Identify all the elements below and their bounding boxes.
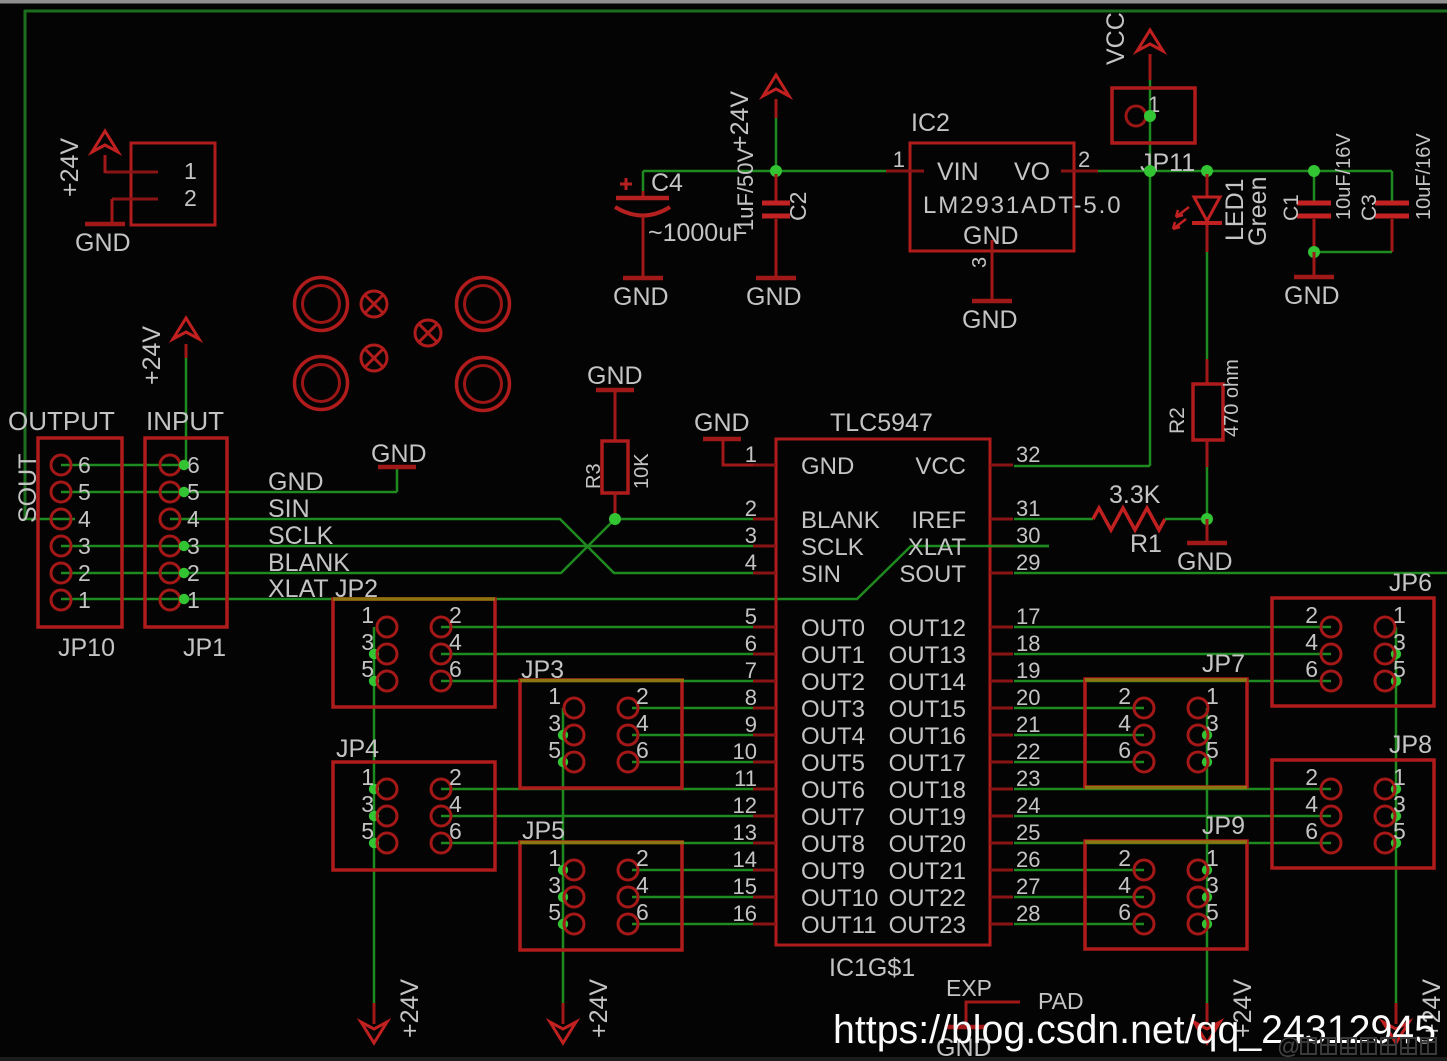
- wire OUT10: [632, 896, 753, 899]
- svg-text:9: 9: [745, 712, 757, 737]
- resistor R1 3.3K: [1093, 508, 1165, 530]
- supply VCC arrow: [1137, 30, 1163, 51]
- wire SIN net: [170, 519, 753, 573]
- svg-text:5: 5: [548, 899, 561, 925]
- pin 31 IREF: [990, 518, 1013, 521]
- pin 23 OUT18: [990, 788, 1013, 791]
- svg-text:10K: 10K: [631, 453, 653, 489]
- wire X1 pin1 to +24V: [105, 171, 158, 174]
- node junction LED branch: [1201, 165, 1213, 177]
- svg-text:22: 22: [1016, 739, 1040, 764]
- wire OUT8 over JP5 top edge: [520, 841, 684, 845]
- svg-text:1: 1: [361, 764, 374, 790]
- pin 3 SCLK: [753, 545, 776, 548]
- pin 20 OUT15: [990, 707, 1013, 710]
- svg-text:10uF/16V: 10uF/16V: [1333, 133, 1355, 220]
- svg-text:JP7: JP7: [1202, 650, 1245, 678]
- pin 22 OUT17: [990, 761, 1013, 764]
- svg-text:10: 10: [733, 739, 757, 764]
- wire +24V riser to arrow: [185, 358, 188, 465]
- svg-text:12: 12: [733, 793, 757, 818]
- node junction VCC rail/vertical: [1144, 165, 1156, 177]
- pin 24 OUT19: [990, 815, 1013, 818]
- svg-text:GND: GND: [268, 468, 324, 496]
- svg-text:SIN: SIN: [268, 495, 310, 523]
- connector JP3: [520, 680, 682, 788]
- svg-text:28: 28: [1016, 901, 1040, 926]
- mounting hole H2: [457, 278, 510, 331]
- mounting hole H4: [457, 358, 510, 411]
- connector JP1 INPUT: [145, 438, 227, 627]
- resistor R3 10K: [602, 441, 628, 493]
- svg-text:+24V: +24V: [585, 979, 613, 1038]
- wire R3 to BLANK: [614, 493, 617, 519]
- svg-text:23: 23: [1016, 766, 1040, 791]
- fiducial X1: [361, 291, 387, 317]
- svg-text:16: 16: [733, 901, 757, 926]
- svg-text:XLAT: XLAT: [268, 575, 329, 603]
- svg-text:6: 6: [636, 737, 649, 763]
- pin 12 OUT7: [753, 815, 776, 818]
- pin 5 OUT0: [753, 626, 776, 629]
- pin 10 OUT5: [753, 761, 776, 764]
- resistor R2 470 ohm: [1193, 384, 1223, 440]
- wire +24V bus JP7/JP9: [1206, 708, 1209, 1003]
- svg-text:5: 5: [745, 604, 757, 629]
- wire OUT23: [1014, 923, 1144, 926]
- wire VCC corner to C3: [1391, 171, 1394, 201]
- svg-text:4: 4: [636, 872, 649, 898]
- wire GND net row: [61, 491, 397, 494]
- svg-text:6: 6: [636, 899, 649, 925]
- pin 18 OUT13: [990, 653, 1013, 656]
- pin 4 SIN: [753, 572, 776, 575]
- svg-text:1: 1: [1393, 602, 1406, 628]
- svg-text:EXP: EXP: [946, 975, 992, 1001]
- svg-text:4: 4: [636, 710, 649, 736]
- wire SCLK net: [61, 545, 753, 548]
- svg-text:OUT18: OUT18: [889, 777, 966, 804]
- pin 15 OUT10: [753, 896, 776, 899]
- wire R1 to junction: [1165, 518, 1207, 521]
- wire R2 to R1 junction: [1206, 440, 1209, 467]
- wire OUT18 over JP7 bottom edge: [1085, 786, 1247, 790]
- pin 1 GND: [753, 464, 776, 467]
- svg-text:OUT7: OUT7: [801, 804, 865, 831]
- wire XLAT net: [61, 546, 1049, 599]
- node junction JP11 pin: [1144, 110, 1156, 122]
- svg-text:3: 3: [969, 257, 991, 268]
- svg-text:Green: Green: [1244, 177, 1272, 246]
- wire OUT4: [632, 734, 753, 737]
- wire +24V bus JP6/JP8: [1395, 627, 1398, 1003]
- svg-text:2: 2: [636, 845, 649, 871]
- wire OUT7: [441, 815, 753, 818]
- wire +24V rail to C4 and IC2 VIN: [643, 170, 886, 173]
- svg-text:R1: R1: [1130, 530, 1162, 558]
- connector JP5: [520, 842, 682, 950]
- wire +24V bus JP2/JP4: [373, 627, 376, 1003]
- svg-text:19: 19: [1016, 658, 1040, 683]
- connector JP6: [1272, 598, 1434, 706]
- svg-text:15: 15: [733, 874, 757, 899]
- pin 29 SOUT: [990, 572, 1013, 575]
- svg-text:3: 3: [548, 872, 561, 898]
- svg-text:SCLK: SCLK: [268, 522, 334, 550]
- svg-text:OUT3: OUT3: [801, 696, 865, 723]
- svg-text:5: 5: [1206, 899, 1219, 925]
- connector JP11: [1112, 88, 1195, 143]
- svg-text:SOUT: SOUT: [899, 561, 966, 588]
- wire XLAT over pin30 stub: [987, 545, 1049, 548]
- svg-text:2: 2: [449, 602, 462, 628]
- svg-text:OUT15: OUT15: [889, 696, 966, 723]
- svg-text:OUT19: OUT19: [889, 804, 966, 831]
- svg-text:1: 1: [1206, 683, 1219, 709]
- capacitor C2: [775, 174, 778, 201]
- svg-text:2: 2: [636, 683, 649, 709]
- svg-text:1: 1: [893, 147, 905, 172]
- wire OUT15: [1014, 707, 1144, 710]
- ground GND (X1): [85, 222, 125, 227]
- capacitor C3: [1375, 201, 1409, 206]
- svg-text:OUT22: OUT22: [889, 885, 966, 912]
- svg-text:SOUT: SOUT: [14, 454, 42, 523]
- svg-text:SIN: SIN: [801, 561, 841, 588]
- wire BLANK net: [61, 519, 753, 573]
- svg-text:1: 1: [548, 683, 561, 709]
- wire OUT12: [1014, 626, 1331, 629]
- connector JP9: [1085, 841, 1247, 949]
- svg-text:6: 6: [1118, 737, 1131, 763]
- svg-text:+24V: +24V: [396, 979, 424, 1038]
- svg-text:11: 11: [734, 766, 757, 791]
- svg-text:@: @: [1277, 1033, 1300, 1059]
- svg-text:LM2931ADT-5.0: LM2931ADT-5.0: [923, 192, 1122, 219]
- svg-text:GND: GND: [694, 409, 750, 437]
- wire OUT22: [1014, 896, 1144, 899]
- svg-text:2: 2: [1118, 845, 1131, 871]
- svg-text:OUT5: OUT5: [801, 750, 865, 777]
- svg-text:3: 3: [548, 710, 561, 736]
- wire VCC vertical: [1149, 80, 1152, 466]
- svg-text:JP9: JP9: [1202, 812, 1245, 840]
- svg-text:5: 5: [548, 737, 561, 763]
- svg-text:32: 32: [1016, 442, 1040, 467]
- svg-text:OUTPUT: OUTPUT: [8, 406, 115, 436]
- wire junction to GND: [1206, 519, 1209, 541]
- pin 8 OUT3: [753, 707, 776, 710]
- wire OUT16: [1014, 734, 1144, 737]
- capacitor C4: [642, 191, 645, 198]
- svg-text:20: 20: [1016, 685, 1040, 710]
- svg-text:2: 2: [449, 764, 462, 790]
- svg-text:2: 2: [745, 496, 757, 521]
- connector JP8: [1272, 760, 1434, 868]
- svg-text:+24V: +24V: [56, 138, 84, 197]
- svg-text:C4: C4: [651, 169, 683, 197]
- wire OUT5: [632, 761, 753, 764]
- svg-text:6: 6: [78, 452, 91, 478]
- svg-text:2: 2: [1118, 683, 1131, 709]
- svg-text:C1: C1: [1280, 194, 1303, 221]
- svg-text:C2: C2: [785, 192, 811, 221]
- svg-text:31: 31: [1016, 496, 1040, 521]
- svg-text:OUT16: OUT16: [889, 723, 966, 750]
- wire OUT20 over JP9 top edge: [1085, 840, 1247, 844]
- svg-text:3: 3: [1393, 629, 1406, 655]
- pin 28 OUT23: [990, 923, 1013, 926]
- svg-text:OUT23: OUT23: [889, 912, 966, 939]
- svg-text:OUT21: OUT21: [889, 858, 966, 885]
- svg-text:OUT17: OUT17: [889, 750, 966, 777]
- svg-text:R2: R2: [1166, 407, 1189, 434]
- op-amp U1 / regulator IC2 LM2931ADT-5.0: [910, 143, 1074, 251]
- svg-text:6: 6: [1305, 818, 1318, 844]
- wire GND to R3: [614, 390, 617, 441]
- svg-text:1: 1: [1393, 764, 1406, 790]
- ground GND (C4): [623, 276, 663, 281]
- svg-text:VCC: VCC: [915, 453, 966, 480]
- supply +24V arrow (JP1): [173, 318, 199, 339]
- svg-text:4: 4: [187, 506, 200, 532]
- svg-text:TLC5947: TLC5947: [830, 409, 933, 437]
- svg-text:1: 1: [184, 158, 197, 184]
- svg-text:OUT20: OUT20: [889, 831, 966, 858]
- svg-text:GND: GND: [613, 283, 669, 311]
- svg-text:IC1G$1: IC1G$1: [829, 954, 915, 982]
- wire LED anode: [1206, 174, 1209, 197]
- svg-text:1uF/50V: 1uF/50V: [733, 148, 758, 231]
- capacitor C1: [1297, 201, 1331, 206]
- supply +24V down arrow x=1396: [1395, 1003, 1398, 1024]
- node junctions JP1 pins: [179, 460, 189, 470]
- svg-text:BLANK: BLANK: [268, 549, 350, 577]
- svg-text:5: 5: [1393, 656, 1406, 682]
- pin 16 OUT11: [753, 923, 776, 926]
- svg-text:JP6: JP6: [1389, 569, 1432, 597]
- wire OUT0: [441, 626, 753, 629]
- wire OUT2: [441, 680, 753, 683]
- wire OUT18: [1014, 788, 1331, 791]
- node junction C1 bottom: [1308, 246, 1320, 258]
- svg-text:5: 5: [78, 479, 91, 505]
- supply +24V arrow (C2 node): [763, 75, 789, 96]
- connector JP7: [1085, 679, 1247, 787]
- svg-text:3: 3: [361, 629, 374, 655]
- svg-text:OUT2: OUT2: [801, 669, 865, 696]
- pin 11 OUT6: [753, 788, 776, 791]
- wire OUT14 over JP7 top edge: [1085, 678, 1247, 682]
- connector X1 power input: [131, 143, 215, 225]
- wire OUT1: [441, 653, 753, 656]
- pin 30 XLAT: [990, 545, 1013, 548]
- svg-text:+24V: +24V: [138, 326, 166, 385]
- svg-text:1: 1: [361, 602, 374, 628]
- svg-text:IREF: IREF: [911, 507, 966, 534]
- svg-text:3: 3: [1206, 872, 1219, 898]
- svg-text:JP8: JP8: [1389, 731, 1432, 759]
- pin 25 OUT20: [990, 842, 1013, 845]
- svg-text:1: 1: [745, 442, 757, 467]
- supply +24V arrow (X1): [92, 131, 118, 152]
- wire IREF pin31 to R1: [1014, 518, 1093, 521]
- svg-text:4: 4: [1118, 710, 1131, 736]
- svg-text:18: 18: [1016, 631, 1040, 656]
- wire SOUT from pin29 to edge: [1014, 572, 1447, 575]
- pin 14 OUT9: [753, 869, 776, 872]
- svg-text:GND: GND: [1284, 282, 1340, 310]
- wire +24V bus JP3/JP5: [562, 708, 565, 1003]
- svg-text:1: 1: [548, 845, 561, 871]
- svg-text:27: 27: [1016, 874, 1040, 899]
- svg-text:4: 4: [745, 550, 757, 575]
- svg-text:C3: C3: [1358, 194, 1381, 221]
- svg-text:R3: R3: [583, 463, 605, 489]
- svg-text:10uF/16V: 10uF/16V: [1413, 133, 1435, 220]
- svg-text:3: 3: [1393, 791, 1406, 817]
- svg-text:JP4: JP4: [336, 735, 379, 763]
- svg-text:JP1: JP1: [183, 634, 226, 662]
- wire GND to pin 1: [723, 439, 753, 465]
- pin 21 OUT16: [990, 734, 1013, 737]
- ground GND (C2): [756, 276, 796, 281]
- pin 6 OUT1: [753, 653, 776, 656]
- svg-text:OUT14: OUT14: [889, 669, 966, 696]
- wire VCC rail: [1098, 170, 1392, 173]
- svg-text:30: 30: [1016, 523, 1040, 548]
- supply +24V down arrow x=1207: [1206, 1003, 1209, 1024]
- ground GND (EXP PAD): [947, 1025, 985, 1030]
- svg-text:XLAT: XLAT: [908, 534, 967, 561]
- svg-text:VO: VO: [1014, 158, 1050, 186]
- svg-text:14: 14: [733, 847, 757, 872]
- wire OUT8: [441, 842, 753, 845]
- svg-text:JP10: JP10: [58, 634, 115, 662]
- connector JP2: [333, 599, 495, 707]
- pin 3 IC2: [991, 240, 994, 299]
- svg-text:GND: GND: [75, 229, 131, 257]
- svg-text:2: 2: [184, 185, 197, 211]
- svg-text:4: 4: [449, 629, 462, 655]
- supply +24V down arrow x=374: [373, 1003, 376, 1024]
- svg-text:7: 7: [745, 658, 757, 683]
- svg-text:6: 6: [745, 631, 757, 656]
- wire C1/C3 bottom link: [1314, 251, 1392, 254]
- wire OUT6: [441, 788, 753, 791]
- wire LED cathode to R2: [1206, 225, 1209, 252]
- wire OUT17: [1014, 761, 1144, 764]
- wire SOUT to JP10 pin 4: [24, 518, 75, 521]
- wire XLAT over JP2 top edge: [333, 597, 495, 601]
- svg-text:26: 26: [1016, 847, 1040, 872]
- ground GND (JP1 row): [378, 465, 416, 470]
- wire VCC to C1: [1313, 171, 1316, 201]
- pin 9 OUT4: [753, 734, 776, 737]
- svg-text:6: 6: [1305, 656, 1318, 682]
- svg-text:24: 24: [1016, 793, 1040, 818]
- svg-text:5: 5: [1206, 737, 1219, 763]
- svg-text:29: 29: [1016, 550, 1040, 575]
- supply +24V down arrow x=563: [562, 1003, 565, 1024]
- svg-text:GND: GND: [801, 453, 854, 480]
- wire +24V net JP10.6-JP1.6: [61, 464, 184, 467]
- wire OUT13: [1014, 653, 1331, 656]
- svg-text:2: 2: [1305, 602, 1318, 628]
- wire OUT11: [632, 923, 753, 926]
- svg-text:VCC: VCC: [1102, 12, 1130, 65]
- svg-text:4: 4: [449, 791, 462, 817]
- svg-text:SCLK: SCLK: [801, 534, 864, 561]
- svg-text:6: 6: [449, 656, 462, 682]
- svg-text:17: 17: [1016, 604, 1040, 629]
- pin 7 OUT2: [753, 680, 776, 683]
- connector JP4: [333, 762, 495, 870]
- svg-text:6: 6: [449, 818, 462, 844]
- svg-text:INPUT: INPUT: [146, 406, 224, 436]
- svg-text:6: 6: [1118, 899, 1131, 925]
- svg-text:4: 4: [1305, 791, 1318, 817]
- wire OUT19: [1014, 815, 1331, 818]
- svg-text:3: 3: [78, 533, 91, 559]
- wire VCC to IC pin32: [1014, 465, 1150, 468]
- svg-text:3.3K: 3.3K: [1109, 481, 1161, 509]
- svg-text:4: 4: [78, 506, 91, 532]
- wire OUT21: [1014, 869, 1144, 872]
- svg-text:BLANK: BLANK: [801, 507, 880, 534]
- svg-text:2: 2: [78, 560, 91, 586]
- pin 32 VCC: [990, 464, 1013, 467]
- svg-text:4: 4: [1305, 629, 1318, 655]
- svg-text:OUT8: OUT8: [801, 831, 865, 858]
- svg-text:OUT4: OUT4: [801, 723, 865, 750]
- svg-text:1: 1: [78, 587, 91, 613]
- svg-text:OUT10: OUT10: [801, 885, 878, 912]
- mounting hole H3: [295, 357, 348, 410]
- svg-text:+24V: +24V: [726, 91, 754, 150]
- ground GND (C1/C3): [1294, 275, 1334, 280]
- fiducial X2: [415, 320, 441, 346]
- svg-text:OUT0: OUT0: [801, 615, 865, 642]
- svg-text:470 ohm: 470 ohm: [1221, 359, 1243, 437]
- svg-text:VIN: VIN: [937, 158, 979, 186]
- fiducial X3: [361, 345, 387, 371]
- svg-text:21: 21: [1016, 712, 1040, 737]
- svg-text:1: 1: [1206, 845, 1219, 871]
- wire OUT9: [632, 869, 753, 872]
- svg-text:3: 3: [1206, 710, 1219, 736]
- svg-text:5: 5: [361, 818, 374, 844]
- svg-text:OUT11: OUT11: [801, 912, 877, 939]
- svg-text:GND: GND: [962, 306, 1018, 334]
- svg-text:3: 3: [361, 791, 374, 817]
- wire SOUT perimeter (left edge): [24, 10, 27, 519]
- pin 17 OUT12: [990, 626, 1013, 629]
- ground GND (R1): [1187, 541, 1227, 546]
- svg-text:13: 13: [733, 820, 757, 845]
- svg-text:IC2: IC2: [911, 109, 950, 137]
- svg-text:4: 4: [1118, 872, 1131, 898]
- svg-text:GND: GND: [587, 362, 643, 390]
- svg-text:5: 5: [1393, 818, 1406, 844]
- svg-text:OUT6: OUT6: [801, 777, 865, 804]
- svg-text:GND: GND: [746, 283, 802, 311]
- node junction +24V/C2: [770, 165, 782, 177]
- node junction C1 top: [1308, 165, 1320, 177]
- op-amp U2 / IC1 TLC5947: [776, 439, 990, 945]
- svg-text:25: 25: [1016, 820, 1040, 845]
- svg-text:8: 8: [745, 685, 757, 710]
